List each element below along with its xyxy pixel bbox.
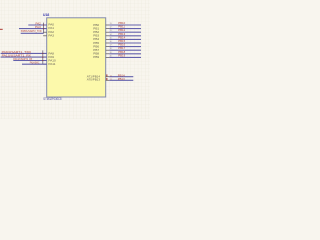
bottom-right pin stubs [106, 77, 110, 81]
svg-text:PA9/USART1_TXD: PA9/USART1_TXD [2, 50, 32, 54]
background grid [0, 0, 150, 119]
wire PA9/USART1_TXD [1, 52, 47, 54]
svg-text:STM32F030C8: STM32F030C8 [43, 97, 61, 101]
right pin stubs [106, 25, 110, 57]
wire net row3 [21, 32, 44, 34]
svg-text:PA3: PA3 [35, 25, 41, 29]
svg-text:PA11: PA11 [48, 62, 55, 66]
vertical wire upper left [43, 23, 45, 34]
right pin numbers [110, 23, 112, 57]
left upper pin names PA0-PA3 [48, 23, 54, 38]
bottom-right pin edge marks [106, 74, 107, 80]
svg-text:PA14/SWC: PA14/SWC [30, 61, 40, 65]
bottom-right wires [109, 77, 133, 81]
vertical wire lower left [42, 50, 44, 64]
junction [42, 57, 43, 58]
svg-text:PB9: PB9 [93, 55, 99, 59]
bottom-right interior names [87, 75, 101, 82]
svg-text:PB19: PB19 [118, 53, 125, 57]
junction [43, 28, 44, 29]
right net labels [118, 21, 125, 57]
wire short net to PA10 [13, 60, 46, 62]
left lower pin names PA8-PA11 [48, 51, 56, 66]
svg-text:AT0/PB13: AT0/PB13 [87, 77, 101, 81]
wire long net to PA1 [19, 28, 47, 30]
svg-text:PA13/USART2_RX: PA13/USART2_RX [13, 57, 32, 61]
cropped net label at left edge [0, 29, 3, 30]
junction [42, 53, 43, 54]
wire short net to PA11 [22, 63, 47, 65]
svg-text:PWR/USART2_TXD: PWR/USART2_TXD [21, 29, 42, 33]
bottom-right net labels [118, 73, 125, 81]
svg-text:PA3: PA3 [48, 33, 54, 37]
svg-text:U18: U18 [43, 13, 49, 17]
left lower pin stubs [43, 53, 47, 64]
wire long net to PA0 [28, 24, 46, 26]
right bank interior names PB0-PB9 [93, 23, 99, 59]
bottom-right pin numbers [110, 75, 112, 81]
left upper pin stubs [43, 25, 47, 36]
right wires [109, 25, 141, 57]
svg-text:PB13: PB13 [118, 77, 125, 81]
junction [42, 60, 43, 61]
IC U18 body [47, 18, 106, 97]
junction [43, 24, 44, 25]
wire PA10/USART1_RXD [1, 56, 47, 58]
